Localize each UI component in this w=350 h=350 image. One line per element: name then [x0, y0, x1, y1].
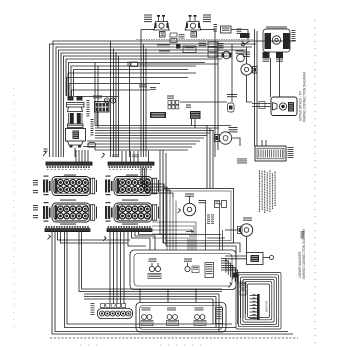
wire vertical drop V1	[110, 41, 112, 157]
wire comb P2 down-right 3	[144, 168, 170, 195]
belt switch top bracket	[266, 27, 287, 28]
wire comb P5 drop 2	[55, 232, 288, 332]
wire L5 to thermal fuse	[180, 101, 227, 103]
wire upper bus L1	[53, 41, 296, 157]
drive motor upper label	[229, 127, 238, 128]
connector plug P4 (face view)	[105, 202, 159, 222]
wire band1 to band2 C	[195, 289, 197, 303]
door switch S2 pins	[189, 15, 197, 21]
drain solenoid cluster	[194, 308, 206, 326]
wire belt switch down B	[279, 58, 281, 97]
belt switch left pad	[265, 33, 272, 49]
connector L5 label	[167, 96, 174, 97]
buzzer B1 text	[288, 102, 294, 112]
valve assembly box outer	[164, 189, 234, 244]
wire comb B stub 3	[130, 151, 132, 162]
wires row2 connector to valve box	[152, 222, 196, 250]
timer feet	[70, 145, 73, 148]
wire upper bus inner L11	[67, 78, 189, 97]
spin solenoid cluster	[167, 308, 179, 326]
wire valve vertical A	[205, 200, 207, 250]
wire P10K feed B	[265, 140, 267, 146]
wire upper bus extra y73	[68, 72, 196, 74]
ground text	[243, 52, 250, 53]
wire comb P6 drop 8	[135, 232, 155, 250]
wire comb B stub 4	[133, 151, 135, 162]
P10K bottom label	[237, 158, 247, 161]
connector plug P3 (face view)	[43, 202, 97, 222]
washer motor aux parts	[240, 282, 246, 295]
connector plug P1 (face view)	[43, 176, 97, 196]
small cluster mid-left	[139, 85, 156, 90]
heater label	[199, 41, 207, 42]
arrow into comb P2	[102, 153, 105, 158]
wire loop band1 outer	[130, 250, 236, 290]
washer motor inner terminal bar	[257, 294, 260, 320]
buzzer B1 coil	[273, 103, 278, 111]
switch wiring labels B	[159, 50, 170, 53]
wire comb P2 down-right 1	[141, 168, 164, 189]
cluster timer lower	[205, 263, 214, 278]
wire comb P6 drop 6	[128, 232, 146, 246]
wire S2 to relay	[201, 29, 216, 31]
thermal fuse TF1	[228, 103, 235, 112]
wire lower mid vertical 1	[218, 294, 220, 332]
wire comb B stub 6	[148, 151, 150, 162]
connector comb P1 (edge view)	[46, 162, 92, 168]
wire lower mid bus 5	[84, 298, 213, 300]
water valve top stem	[185, 194, 194, 204]
wire upper bus L3	[56, 47, 252, 157]
wire J2 down	[96, 112, 98, 126]
connector row1 pin numbers B	[126, 175, 138, 176]
wire comb P5 drop 6	[82, 232, 131, 289]
drive motor terminal lug	[253, 67, 258, 74]
start switch contact stack	[170, 33, 185, 43]
caution note text block	[260, 170, 276, 213]
wire S1 to bus	[141, 29, 154, 31]
belt switch label	[292, 29, 296, 32]
switch S2 lower contact	[191, 32, 197, 38]
wire timer base down	[74, 148, 76, 158]
arrow label at comb P5	[48, 235, 51, 240]
valve box internal verticals	[167, 192, 176, 251]
arrow P4 into comb P1	[43, 149, 48, 157]
wire vertical drop V14	[254, 29, 256, 146]
hi-limit thermostat	[223, 51, 231, 59]
wire loop band2 inner	[140, 306, 223, 330]
connector row2 bottom label A	[60, 224, 76, 225]
wire vertical drop V3	[115, 52, 117, 157]
switch S2 label	[203, 15, 211, 16]
lower right small label	[301, 231, 305, 234]
wire vertical drop V15	[256, 31, 258, 146]
connector P10K	[255, 146, 286, 161]
connector comb P6 (edge view)	[107, 226, 152, 232]
timer pillar rails	[68, 113, 70, 124]
wire comb B stub 5	[137, 151, 139, 162]
lid switch	[247, 253, 264, 265]
valve bracket	[178, 209, 181, 214]
switch wiring labels A	[157, 44, 170, 47]
lower pump motor	[240, 224, 252, 236]
wire comb P6 drop 9	[139, 232, 161, 235]
belt switch roller	[272, 36, 280, 44]
connector row2 left labels	[33, 205, 38, 218]
connector plug P2 (face view)	[105, 176, 159, 196]
timer mid bar	[68, 124, 84, 128]
wire lower bus C	[166, 246, 236, 259]
wire motor M down	[247, 75, 253, 102]
wire mid vertical W2	[209, 128, 211, 189]
water valve motor circle	[183, 203, 195, 215]
wire mid vertical W4	[159, 150, 161, 235]
small capsule part	[88, 143, 96, 148]
wire lower bus B	[163, 243, 240, 253]
wire upper bus inner L9	[71, 66, 196, 96]
heater relay J9 label	[186, 105, 191, 106]
wire lower mid bus 1	[130, 288, 222, 290]
connector comb P2 (edge view)	[108, 162, 154, 168]
wire comb P5 drop 1	[52, 232, 293, 334]
door switch S2	[185, 22, 202, 31]
heater fuse block	[176, 44, 181, 49]
wire comb P6 drop 3	[116, 232, 118, 304]
wire comb A stub 2	[78, 150, 80, 162]
timer neck	[68, 107, 83, 112]
small connector tap	[128, 62, 138, 67]
wire mid vertical W1	[206, 126, 208, 189]
wire buzzer feed	[252, 103, 271, 105]
wire loop band1 inner	[134, 254, 232, 287]
relay K1 label	[214, 24, 218, 25]
wire lower bus A	[160, 234, 221, 236]
door switch S1 label	[144, 15, 152, 16]
wire comb A stub 5	[87, 150, 89, 162]
wire vertical drop V5	[140, 30, 142, 158]
wire band1 to band2 B	[167, 289, 169, 303]
wire vertical drop V2	[113, 49, 115, 158]
wire upper bus inner L12	[69, 84, 160, 97]
tumbler belt label	[150, 112, 166, 118]
valve coil A	[215, 201, 220, 208]
wire comb P2 down-right 2	[143, 168, 167, 192]
ground switch symbol	[242, 41, 250, 44]
wire comb P2 down-right 4	[146, 168, 173, 198]
buzzer B1 housing	[271, 97, 297, 116]
wire timer base right	[83, 147, 95, 151]
timer body	[66, 129, 86, 142]
wire P10K feed A	[261, 140, 263, 146]
wire upper bus L6	[64, 56, 229, 157]
belt switch terminal A	[263, 52, 270, 58]
heater box	[183, 46, 196, 53]
belt switch terminal B	[276, 52, 283, 58]
wire vertical drop V16	[129, 66, 131, 157]
wire motor M up	[246, 47, 248, 64]
wire upper bus inner L7	[66, 59, 222, 96]
wire pump motor left	[225, 229, 238, 231]
buzzer B1 eye	[279, 103, 286, 110]
wire vertical drop V9	[97, 66, 99, 128]
wire mid vertical W6	[165, 153, 167, 246]
wire upper mid bus M6	[95, 137, 204, 139]
thermostat stack	[208, 42, 224, 57]
arrow label at comb P6	[103, 237, 106, 242]
left edge dotted guide line	[14, 88, 15, 89]
wire vertical drop V11	[217, 41, 219, 150]
wire belt switch down A	[265, 52, 267, 58]
wire upper mid bus M3	[95, 130, 214, 132]
wire comb A stub 1	[75, 150, 77, 162]
cycling thermostat	[237, 54, 245, 62]
wire tap to right	[138, 63, 219, 65]
ground label	[240, 33, 250, 38]
wire relay to right	[231, 29, 248, 31]
drive motor upper	[219, 132, 231, 144]
wire upper mid bus M8	[87, 143, 196, 145]
wire vertical drop V12	[231, 45, 233, 103]
wire lower mid vertical 3	[212, 299, 214, 324]
washer motor winding taps	[250, 294, 258, 319]
wire upper mid bus M4	[95, 132, 211, 134]
lid switch terminal	[270, 256, 274, 260]
connector J2 grid	[95, 102, 110, 113]
wire upper bus inner L10	[74, 70, 189, 97]
timer base	[68, 141, 84, 145]
relay K1	[221, 26, 232, 33]
wire motor upper right	[232, 138, 240, 146]
wire upper bus L2	[50, 44, 257, 157]
timer top cap	[67, 103, 85, 108]
wire lid switch left	[225, 256, 247, 259]
washer motor top-left pad	[233, 273, 239, 278]
wire pump motor down	[246, 236, 248, 252]
wire comb B stub 2	[125, 151, 127, 162]
wire comb P6 drop 2	[113, 232, 115, 304]
console connector label	[91, 302, 95, 305]
wire comb A stub 4	[84, 150, 86, 162]
connector row2 bracket label A	[60, 200, 76, 201]
console connector	[98, 304, 133, 319]
svg-text:MOTOR: MOTOR	[265, 300, 269, 312]
page artifact dots	[80, 345, 201, 346]
wire upper bus inner L8	[69, 63, 206, 97]
wire upper bus inner L14	[74, 96, 118, 98]
wire upper mid bus M5	[95, 135, 207, 137]
wire lower mid bus 3	[84, 293, 219, 295]
wire comb P5 drop 8	[61, 232, 129, 243]
cluster pressure switch labels	[149, 259, 157, 260]
wire lid switch right	[263, 257, 270, 259]
small parts row under J2	[93, 96, 116, 104]
wire mid vertical W5	[162, 150, 164, 243]
agitate solenoid cluster	[141, 308, 153, 326]
connector P10K label	[288, 146, 294, 149]
timer pillar A	[70, 113, 74, 124]
connector L5 grid	[168, 101, 179, 109]
timer pin pair A	[68, 96, 74, 101]
wire valve vertical B	[219, 208, 221, 250]
wire vertical drop V4	[118, 56, 120, 158]
wire upper bus L4	[59, 50, 247, 157]
valve label text cols	[207, 215, 214, 224]
wire top bus dashed	[136, 39, 254, 41]
wire vertical drop V13	[247, 30, 249, 40]
lower pump motor label	[243, 218, 252, 219]
arrow in valve box	[186, 230, 193, 232]
wire band1 to band2 A	[139, 289, 141, 303]
wire upper mid bus M10	[95, 149, 188, 151]
wire lower mid vertical 2	[215, 297, 217, 328]
wire comb P5 drop 4	[67, 232, 232, 324]
valve coil B	[218, 201, 227, 208]
wire vertical drop V10	[214, 30, 216, 158]
wire upper mid bus M7	[87, 140, 200, 142]
band2 right element	[216, 308, 223, 324]
comb P2 wire labels	[112, 155, 139, 158]
lower pump motor lug	[238, 227, 243, 234]
wire vertical drop V7	[145, 49, 147, 158]
wire comb P6 drop 5	[123, 232, 125, 304]
wire upper bus inner L13	[72, 90, 151, 96]
wire bottom bus dashed	[50, 337, 298, 339]
wire comb P6 drop 1	[109, 232, 111, 304]
connector row2 bottom label B	[122, 224, 138, 225]
wire lower mid bus 4	[84, 296, 216, 298]
drive motor M	[241, 64, 252, 75]
drive motor upper lug	[215, 135, 220, 142]
thermal fuse TF1 label	[227, 94, 237, 95]
wire J9 down B	[194, 119, 196, 128]
wire vertical drop V8	[94, 63, 96, 126]
wire loop band2 outer	[136, 303, 226, 333]
cluster water level labels	[184, 259, 192, 260]
valve assembly box inner	[166, 191, 231, 241]
comb P1 pin numbers	[47, 169, 89, 170]
cluster water level parts	[185, 263, 199, 273]
heater relay J9	[190, 111, 201, 119]
belt switch assembly housing	[263, 29, 290, 52]
wire comb P5 drop 5	[79, 232, 130, 292]
wire upper bus extra vertical	[67, 73, 69, 96]
wire upper mid bus M2	[95, 127, 219, 129]
valve label right	[199, 200, 206, 201]
wire upper mid bus M9	[87, 146, 192, 148]
wire comb P6 drop 4	[120, 232, 122, 304]
thermostat label T1	[237, 29, 242, 30]
wire lower mid bus 2	[130, 291, 222, 293]
cluster pressure switch parts	[148, 263, 161, 279]
belt switch right pad	[283, 33, 290, 49]
timer side label	[87, 100, 90, 101]
right edge dotted guide line	[315, 20, 316, 21]
timer pillar B	[77, 113, 81, 124]
wire lower bus D	[207, 237, 225, 239]
wire comb P6 drop 7	[132, 232, 151, 250]
buzzer feed bracket	[259, 102, 265, 109]
wire mid vertical W3	[212, 131, 214, 189]
connector row1 left labels	[33, 180, 38, 193]
connector comb P5 (edge view)	[45, 226, 90, 232]
wire upper bus L5	[61, 53, 232, 157]
wire vertical drop V6	[143, 45, 145, 158]
switch S1 lower contact	[160, 32, 166, 38]
washer motor winding loops	[236, 273, 281, 330]
door switch S1	[153, 15, 170, 30]
svg-text:WIRING CONNECTION DIAGRAM: WIRING CONNECTION DIAGRAM	[303, 72, 307, 122]
wire comb P5 drop 7	[58, 232, 131, 240]
wire upper mid bus M1	[95, 125, 231, 127]
wire J9 down A	[191, 119, 193, 126]
wire valve vertical C	[222, 230, 224, 250]
wire comb P5 drop 3	[65, 232, 237, 328]
comb P2 pin numbers	[109, 169, 151, 170]
wire comb A stub 3	[81, 150, 83, 162]
washer motor left arrow	[229, 283, 232, 288]
washer motor interior verticals	[238, 276, 246, 324]
washer motor entry staircase	[221, 259, 238, 285]
wire belt switch down C	[270, 58, 272, 97]
wire comb B stub 1	[121, 151, 123, 162]
timer lower side label	[91, 119, 94, 120]
connector row1 pin numbers A	[64, 175, 76, 176]
connector row2 bracket label B	[122, 200, 138, 201]
